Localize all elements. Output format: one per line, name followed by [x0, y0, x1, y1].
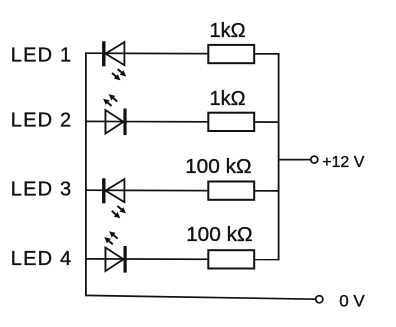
label +12 V [322, 154, 365, 171]
label LED 3 [11, 179, 73, 201]
wire: LED4 row horizontal [85, 258, 280, 261]
resistor R3 value 100kΩ [185, 156, 252, 178]
LED D3 [102, 178, 128, 220]
label LED 2 [11, 109, 73, 131]
wire: left vertical bus [85, 53, 87, 296]
wire: LED3 row horizontal [85, 189, 280, 192]
svg-text:100 kΩ: 100 kΩ [186, 224, 253, 246]
resistor R2 value 1kΩ [210, 88, 246, 110]
svg-text:LED 1: LED 1 [11, 45, 73, 67]
wire: LED2 row horizontal [85, 120, 280, 123]
LED D1 [102, 41, 128, 82]
svg-text:1kΩ: 1kΩ [210, 20, 246, 42]
label LED 4 [11, 248, 73, 270]
svg-text:100 kΩ: 100 kΩ [185, 156, 252, 178]
LED D2 [101, 92, 126, 135]
svg-text:LED 2: LED 2 [11, 109, 73, 131]
svg-text:1kΩ: 1kΩ [210, 88, 246, 110]
svg-text:LED 3: LED 3 [11, 179, 73, 201]
svg-text:LED 4: LED 4 [11, 248, 73, 270]
resistor R4 [208, 250, 254, 268]
label 0 V [339, 292, 365, 311]
label LED 1 [11, 45, 73, 67]
wire: LED1 row horizontal [85, 52, 280, 55]
resistor R2 [208, 113, 254, 131]
terminal 0V [316, 296, 323, 303]
resistor R1 [208, 45, 254, 63]
wire: 0V bottom rail [85, 295, 316, 299]
resistor R4 value 100kΩ [186, 224, 253, 246]
wire: right vertical bus [278, 54, 280, 260]
terminal +12V [311, 156, 318, 163]
resistor R3 [208, 182, 254, 200]
wire: +12V branch [279, 159, 311, 161]
svg-text:+12 V: +12 V [322, 154, 365, 171]
resistor R1 value 1kΩ [210, 20, 246, 42]
LED D4 [102, 229, 126, 273]
svg-text:0 V: 0 V [339, 292, 365, 311]
